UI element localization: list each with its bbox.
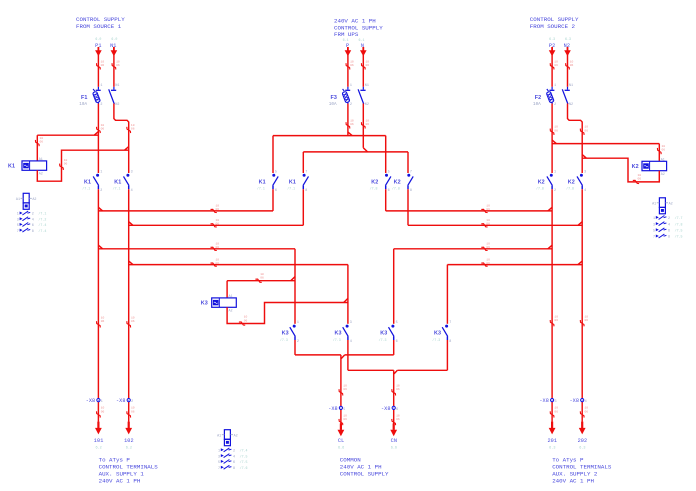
svg-text:A2: A2 <box>669 202 673 206</box>
svg-text:8: 8 <box>410 189 412 193</box>
svg-text:06: 06 <box>638 178 642 181</box>
svg-text:2: 2 <box>233 450 235 454</box>
svg-text:2: 2 <box>131 400 133 404</box>
svg-text:06: 06 <box>396 388 400 391</box>
svg-text:K3: K3 <box>201 301 208 307</box>
svg-text:6: 6 <box>275 189 277 193</box>
svg-text:06: 06 <box>244 319 248 322</box>
svg-text:P1: P1 <box>95 43 101 49</box>
svg-text:1: 1 <box>218 450 220 454</box>
svg-text:10: 10 <box>486 243 490 246</box>
svg-text:/7.5: /7.5 <box>240 454 248 458</box>
svg-text:/7.4: /7.4 <box>38 223 46 227</box>
svg-text:F3: F3 <box>331 95 338 101</box>
svg-text:10: 10 <box>554 60 558 63</box>
svg-text:N2: N2 <box>569 103 573 107</box>
svg-text:7: 7 <box>305 171 307 175</box>
svg-text:6: 6 <box>668 230 670 234</box>
svg-text:CL: CL <box>338 438 344 444</box>
svg-text:10: 10 <box>638 174 642 177</box>
svg-text:10: 10 <box>366 119 370 122</box>
svg-text:A1: A1 <box>217 434 221 438</box>
svg-text:6.0: 6.0 <box>111 37 117 41</box>
svg-text:/7.8: /7.8 <box>536 187 544 191</box>
svg-text:6.6: 6.6 <box>338 446 344 450</box>
svg-text:06: 06 <box>101 64 105 67</box>
svg-text:-X8: -X8 <box>86 398 96 404</box>
svg-text:A2: A2 <box>234 434 238 438</box>
svg-text:10: 10 <box>554 126 558 129</box>
svg-text:K3: K3 <box>282 331 289 337</box>
svg-text:06: 06 <box>662 149 666 152</box>
svg-text:10: 10 <box>486 205 490 208</box>
svg-text:06: 06 <box>570 64 574 67</box>
svg-text:N2: N2 <box>365 103 369 107</box>
svg-text:F2: F2 <box>535 95 542 101</box>
svg-text:4: 4 <box>668 223 670 227</box>
svg-text:/7.5: /7.5 <box>675 229 683 233</box>
svg-text:101: 101 <box>94 438 104 444</box>
svg-text:/7.8: /7.8 <box>566 187 574 191</box>
svg-text:06: 06 <box>554 319 558 322</box>
svg-text:8: 8 <box>305 189 307 193</box>
svg-text:/7.4: /7.4 <box>38 229 46 233</box>
svg-text:6: 6 <box>388 189 390 193</box>
svg-text:/7.8: /7.8 <box>675 222 683 226</box>
svg-text:6.6: 6.6 <box>391 446 397 450</box>
svg-text:2: 2 <box>350 103 352 107</box>
svg-text:06: 06 <box>101 410 105 413</box>
svg-text:10: 10 <box>396 414 400 417</box>
svg-text:P: P <box>346 43 349 49</box>
svg-text:1: 1 <box>100 171 102 175</box>
svg-text:A1: A1 <box>39 158 43 162</box>
svg-text:/7.6: /7.6 <box>240 466 248 470</box>
svg-text:/7.1: /7.1 <box>38 212 46 216</box>
svg-text:06: 06 <box>584 129 588 132</box>
svg-text:10: 10 <box>101 317 105 320</box>
svg-text:10: 10 <box>260 273 264 276</box>
svg-text:2: 2 <box>32 213 34 217</box>
svg-text:8: 8 <box>233 467 235 471</box>
svg-text:4: 4 <box>32 218 34 222</box>
svg-text:06: 06 <box>101 128 105 131</box>
svg-text:K2: K2 <box>632 164 639 170</box>
svg-text:6.3: 6.3 <box>549 37 555 41</box>
svg-text:/7.8: /7.8 <box>392 187 400 191</box>
svg-text:FROM SOURCE 1: FROM SOURCE 1 <box>76 23 122 30</box>
svg-text:N2: N2 <box>564 43 570 49</box>
svg-text:06: 06 <box>260 277 264 280</box>
svg-text:06: 06 <box>396 418 400 421</box>
svg-text:10: 10 <box>584 126 588 129</box>
svg-text:/7.1: /7.1 <box>287 187 295 191</box>
svg-text:10: 10 <box>570 60 574 63</box>
svg-text:10: 10 <box>486 219 490 222</box>
svg-text:P2: P2 <box>549 43 555 49</box>
svg-text:K1: K1 <box>8 164 15 170</box>
svg-text:8: 8 <box>32 230 34 234</box>
svg-text:K2: K2 <box>371 179 378 185</box>
svg-text:06: 06 <box>486 262 490 265</box>
svg-text:A1: A1 <box>229 295 233 299</box>
svg-text:6.1: 6.1 <box>359 38 365 42</box>
svg-text:6: 6 <box>233 461 235 465</box>
svg-text:2: 2 <box>100 103 102 107</box>
svg-text:1: 1 <box>350 84 352 88</box>
svg-text:10: 10 <box>244 316 248 319</box>
svg-text:3: 3 <box>218 455 220 459</box>
svg-text:6: 6 <box>396 408 398 412</box>
svg-text:-X8: -X8 <box>116 398 126 404</box>
svg-text:06: 06 <box>216 223 220 226</box>
svg-text:10: 10 <box>343 414 347 417</box>
svg-text:3: 3 <box>584 171 586 175</box>
svg-text:CONTROL TERMINALS: CONTROL TERMINALS <box>99 464 159 471</box>
svg-text:202: 202 <box>578 438 588 444</box>
svg-text:4: 4 <box>350 340 352 344</box>
svg-text:06: 06 <box>101 320 105 323</box>
svg-text:A1: A1 <box>652 202 656 206</box>
svg-text:240V AC 1 PH: 240V AC 1 PH <box>99 478 141 485</box>
svg-text:CONTROL SUPPLY: CONTROL SUPPLY <box>340 471 389 478</box>
svg-text:5: 5 <box>396 321 398 325</box>
svg-text:2: 2 <box>554 189 556 193</box>
svg-text:10: 10 <box>131 124 135 127</box>
svg-text:201: 201 <box>547 438 557 444</box>
svg-text:2: 2 <box>100 189 102 193</box>
svg-text:N: N <box>361 43 364 49</box>
svg-text:A2: A2 <box>661 173 665 177</box>
svg-text:2: 2 <box>297 340 299 344</box>
svg-text:06: 06 <box>350 64 354 67</box>
svg-text:3: 3 <box>131 171 133 175</box>
svg-text:3: 3 <box>653 223 655 227</box>
svg-text:N1: N1 <box>110 43 116 49</box>
svg-text:240V AC 1 PH: 240V AC 1 PH <box>340 464 382 471</box>
svg-text:10: 10 <box>101 124 105 127</box>
svg-text:10: 10 <box>350 119 354 122</box>
svg-text:5: 5 <box>388 171 390 175</box>
svg-text:K1: K1 <box>84 179 91 185</box>
svg-text:/7.7: /7.7 <box>675 216 683 220</box>
svg-text:7: 7 <box>449 321 451 325</box>
svg-text:6.2: 6.2 <box>126 446 132 450</box>
svg-text:06: 06 <box>216 262 220 265</box>
svg-text:6.1: 6.1 <box>343 38 349 42</box>
svg-text:6.2: 6.2 <box>95 446 101 450</box>
svg-text:10: 10 <box>216 205 220 208</box>
svg-text:N2: N2 <box>115 103 119 107</box>
svg-text:06: 06 <box>216 246 220 249</box>
svg-text:7: 7 <box>17 230 19 234</box>
svg-text:5: 5 <box>218 461 220 465</box>
svg-text:10: 10 <box>131 407 135 410</box>
svg-text:3: 3 <box>17 218 19 222</box>
svg-text:4: 4 <box>584 189 586 193</box>
svg-text:10: 10 <box>64 159 68 162</box>
svg-text:06: 06 <box>64 163 68 166</box>
svg-text:06: 06 <box>486 246 490 249</box>
svg-text:06: 06 <box>343 388 347 391</box>
svg-text:1: 1 <box>297 321 299 325</box>
svg-text:10: 10 <box>585 407 589 410</box>
svg-text:K2: K2 <box>538 179 545 185</box>
svg-text:06: 06 <box>343 418 347 421</box>
svg-text:10: 10 <box>554 315 558 318</box>
svg-text:2: 2 <box>668 217 670 221</box>
svg-text:10A: 10A <box>533 102 541 107</box>
svg-text:10A: 10A <box>79 102 87 107</box>
svg-text:5: 5 <box>17 224 19 228</box>
svg-text:5: 5 <box>343 408 345 412</box>
svg-text:10: 10 <box>216 219 220 222</box>
svg-text:N1: N1 <box>569 84 573 88</box>
svg-text:K1: K1 <box>259 179 266 185</box>
svg-text:8: 8 <box>449 340 451 344</box>
svg-text:CONTROL TERMINALS: CONTROL TERMINALS <box>552 464 612 471</box>
svg-text:10: 10 <box>662 145 666 148</box>
svg-text:5: 5 <box>275 171 277 175</box>
svg-text:06: 06 <box>216 208 220 211</box>
svg-text:10: 10 <box>554 407 558 410</box>
svg-text:A2: A2 <box>32 198 36 202</box>
svg-text:K1: K1 <box>114 179 121 185</box>
svg-text:4: 4 <box>585 400 587 404</box>
svg-text:06: 06 <box>366 123 370 126</box>
svg-text:/7.4: /7.4 <box>240 449 248 453</box>
svg-text:06: 06 <box>585 410 589 413</box>
svg-text:/7.3: /7.3 <box>333 338 341 342</box>
svg-text:1: 1 <box>653 217 655 221</box>
svg-text:6: 6 <box>396 340 398 344</box>
svg-text:6.3: 6.3 <box>565 37 571 41</box>
svg-text:240V AC 1 PH: 240V AC 1 PH <box>552 478 594 485</box>
svg-text:/7.3: /7.3 <box>280 338 288 342</box>
svg-text:10: 10 <box>396 385 400 388</box>
svg-text:06: 06 <box>554 64 558 67</box>
svg-text:1: 1 <box>100 84 102 88</box>
svg-text:10: 10 <box>486 258 490 261</box>
svg-text:06: 06 <box>486 223 490 226</box>
svg-text:10A: 10A <box>329 102 337 107</box>
svg-text:A2: A2 <box>229 310 233 314</box>
svg-text:FROM SOURCE 2: FROM SOURCE 2 <box>530 23 576 30</box>
svg-text:06: 06 <box>486 208 490 211</box>
svg-text:10: 10 <box>585 315 589 318</box>
svg-text:4: 4 <box>131 189 133 193</box>
svg-text:A1: A1 <box>16 198 20 202</box>
svg-text:K3: K3 <box>335 331 342 337</box>
svg-text:10: 10 <box>116 60 120 63</box>
svg-text:A2: A2 <box>39 173 43 177</box>
svg-text:-X8: -X8 <box>539 398 549 404</box>
svg-text:1: 1 <box>17 213 19 217</box>
svg-text:06: 06 <box>554 410 558 413</box>
svg-text:2: 2 <box>554 103 556 107</box>
svg-text:6.3: 6.3 <box>579 446 585 450</box>
svg-text:102: 102 <box>124 438 134 444</box>
svg-text:06: 06 <box>40 141 44 144</box>
svg-text:06: 06 <box>131 128 135 131</box>
svg-text:/7.8: /7.8 <box>370 187 378 191</box>
svg-text:06: 06 <box>131 410 135 413</box>
svg-text:10: 10 <box>343 385 347 388</box>
svg-text:N1: N1 <box>115 84 119 88</box>
svg-text:1: 1 <box>101 400 103 404</box>
svg-text:8: 8 <box>668 236 670 240</box>
svg-text:/7.1: /7.1 <box>113 187 121 191</box>
svg-text:F1: F1 <box>81 95 88 101</box>
svg-text:10: 10 <box>101 407 105 410</box>
svg-text:06: 06 <box>350 123 354 126</box>
svg-text:CN: CN <box>391 438 397 444</box>
svg-text:10: 10 <box>366 60 370 63</box>
svg-text:-X8: -X8 <box>381 406 391 412</box>
svg-text:K3: K3 <box>380 331 387 337</box>
svg-text:/7.5: /7.5 <box>675 235 683 239</box>
svg-text:/7.2: /7.2 <box>38 217 46 221</box>
svg-text:10: 10 <box>40 137 44 140</box>
svg-text:K3: K3 <box>434 331 441 337</box>
svg-text:/7.1: /7.1 <box>257 187 265 191</box>
svg-text:06: 06 <box>131 320 135 323</box>
svg-text:06: 06 <box>585 319 589 322</box>
svg-text:/7.3: /7.3 <box>432 338 440 342</box>
svg-text:06: 06 <box>554 129 558 132</box>
svg-text:A1: A1 <box>661 159 665 163</box>
svg-text:-X8: -X8 <box>570 398 580 404</box>
svg-text:N1: N1 <box>365 84 369 88</box>
svg-text:6.0: 6.0 <box>95 37 101 41</box>
svg-text:10: 10 <box>350 60 354 63</box>
svg-text:K1: K1 <box>289 179 296 185</box>
svg-text:/7.1: /7.1 <box>82 187 90 191</box>
svg-text:10: 10 <box>131 317 135 320</box>
svg-text:K2: K2 <box>394 179 401 185</box>
svg-text:3: 3 <box>350 321 352 325</box>
svg-text:/7.3: /7.3 <box>379 338 387 342</box>
svg-text:1: 1 <box>554 171 556 175</box>
svg-text:7: 7 <box>653 236 655 240</box>
svg-text:6: 6 <box>32 224 34 228</box>
svg-text:7: 7 <box>410 171 412 175</box>
svg-text:06: 06 <box>366 64 370 67</box>
svg-text:/7.5: /7.5 <box>240 460 248 464</box>
svg-text:4: 4 <box>233 455 235 459</box>
svg-text:10: 10 <box>216 258 220 261</box>
svg-text:7: 7 <box>218 467 220 471</box>
svg-text:3: 3 <box>555 400 557 404</box>
svg-text:6.3: 6.3 <box>549 446 555 450</box>
svg-text:K2: K2 <box>568 179 575 185</box>
svg-text:06: 06 <box>116 64 120 67</box>
svg-text:-X8: -X8 <box>328 406 338 412</box>
svg-text:10: 10 <box>101 60 105 63</box>
svg-text:1: 1 <box>554 84 556 88</box>
svg-text:5: 5 <box>653 230 655 234</box>
svg-text:10: 10 <box>216 243 220 246</box>
